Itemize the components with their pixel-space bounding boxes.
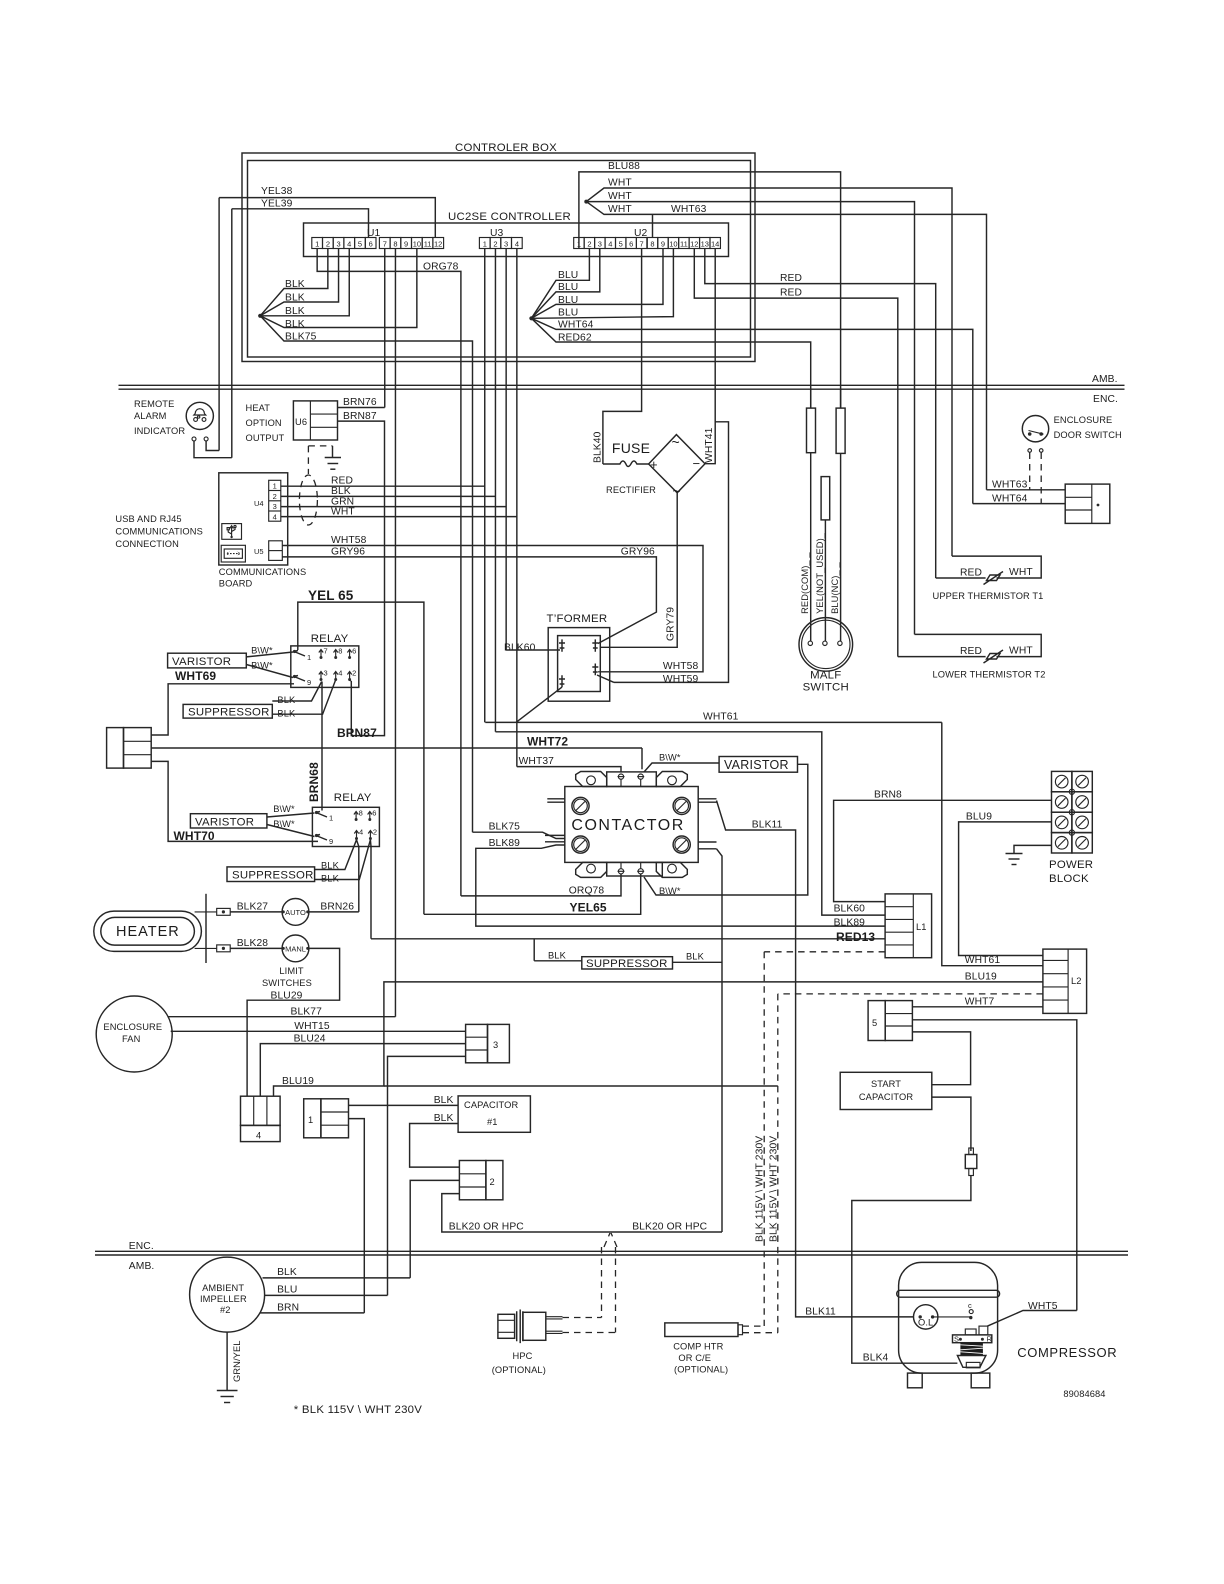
wire BLK U1 pin 2	[260, 249, 328, 316]
malf switch pin 1	[808, 641, 812, 645]
contactor mounting ear bottom-right	[656, 862, 687, 877]
svg-text:R: R	[987, 1335, 993, 1344]
door switch pin left	[1028, 432, 1032, 436]
thermistor T1 symbol	[936, 577, 986, 579]
svg-text:8: 8	[338, 647, 342, 656]
wire BLK U1 pin 4	[260, 249, 349, 316]
wire BLK from U4 pin2 to U3 pin2 column	[281, 495, 496, 497]
wire WHT15 fan to connector 3	[171, 1030, 466, 1032]
svg-text:U4: U4	[254, 499, 264, 508]
svg-text:IMPELLER: IMPELLER	[200, 1294, 247, 1304]
svg-text:BLK60: BLK60	[504, 643, 536, 654]
wire WHT63 to connector	[987, 489, 1066, 491]
wire BLK U1 pin 10	[260, 249, 417, 328]
svg-text:BLU88: BLU88	[608, 161, 640, 172]
svg-text:BRN76: BRN76	[343, 397, 377, 408]
contactor screw bottom-right	[673, 836, 690, 853]
svg-text:3: 3	[493, 1040, 498, 1050]
connector 1 pin column	[321, 1099, 349, 1138]
svg-text:BLK: BLK	[548, 951, 567, 961]
svg-text:#2: #2	[220, 1305, 231, 1315]
compressor foot right	[971, 1373, 990, 1388]
svg-text:BLU: BLU	[558, 308, 578, 319]
node BLU fan junction	[529, 316, 533, 320]
svg-text:BLU19: BLU19	[282, 1076, 314, 1087]
wire RED(COM) above sleeve	[810, 389, 812, 408]
svg-text:~: ~	[672, 434, 680, 450]
wire RED13 branch to suppressor3	[533, 939, 535, 961]
svg-text:1: 1	[315, 240, 319, 249]
wire varistor2 to relay2 pin1	[267, 813, 315, 817]
svg-text:2: 2	[490, 1177, 495, 1187]
wire GRY96 from U5 to transformer	[282, 557, 656, 644]
svg-text:WHT70: WHT70	[174, 829, 215, 843]
communications board outline	[219, 473, 288, 565]
wire BRN87 from U6 to relay 1 pin 2	[338, 421, 385, 735]
svg-text:6: 6	[369, 240, 373, 249]
start capacitor box	[840, 1072, 932, 1109]
svg-text:RED(COM)_ _: RED(COM)_ _	[800, 552, 810, 614]
svg-text:3: 3	[504, 240, 508, 249]
power block terminal grid	[1052, 771, 1072, 791]
contactor coil terminal top-left	[618, 774, 623, 779]
wire BLK U1 pin 3	[260, 249, 338, 316]
svg-text:WHT: WHT	[331, 507, 355, 518]
contactor mounting ear top-right	[656, 772, 687, 787]
svg-text:5: 5	[619, 240, 623, 249]
svg-text:GRN/YEL: GRN/YEL	[232, 1340, 242, 1382]
compressor relay bar	[953, 1335, 992, 1343]
svg-text:WHT37: WHT37	[519, 756, 555, 767]
svg-text:WHT: WHT	[1009, 567, 1033, 578]
svg-text:ENCLOSURE: ENCLOSURE	[103, 1022, 162, 1032]
svg-text:c: c	[968, 1301, 972, 1310]
wire BRN76 U1 pin7 to U6	[384, 249, 386, 408]
svg-text:BLK: BLK	[285, 319, 305, 330]
wire BLU U2 pin10	[531, 249, 673, 319]
wire BLU24 connector3 to connector4	[260, 1044, 465, 1097]
wire BLK4 to compressor start winding	[852, 1176, 971, 1364]
svg-text:BLU29: BLU29	[271, 991, 303, 1002]
wire BLK60 U3 pin2 to L1	[495, 732, 885, 915]
wire suppressor1 to relay1 pin 4	[272, 681, 335, 715]
contactor line contact stubs right upper	[698, 798, 716, 800]
wire WHT37 into contactor coil	[517, 767, 621, 772]
svg-text:BLU: BLU	[558, 270, 578, 281]
svg-text:6: 6	[372, 809, 376, 818]
wire RED from U4 pin1 to U3 pin1 column	[281, 485, 485, 487]
svg-text:BLK89: BLK89	[489, 838, 521, 849]
suppressor 1 box	[183, 704, 272, 718]
svg-text:(OPTIONAL): (OPTIONAL)	[492, 1365, 546, 1375]
svg-text:FAN: FAN	[122, 1034, 140, 1044]
wire GRY79 rectifier to transformer	[600, 493, 677, 648]
svg-text:COMMUNICATIONS: COMMUNICATIONS	[115, 527, 202, 537]
compressor foot left	[908, 1373, 923, 1388]
wire BLK89 contactor to L1	[476, 845, 885, 926]
door switch connector dot	[1097, 504, 1100, 507]
transformer pin left bottom	[559, 675, 565, 687]
wire WHT64 to door switch connector	[531, 318, 972, 503]
transformer outer box	[548, 628, 610, 702]
wire connector3 to impeller BLU	[388, 1056, 466, 1295]
svg-text:VARISTOR: VARISTOR	[724, 758, 789, 772]
svg-text:4: 4	[515, 240, 519, 249]
svg-text:BLU19: BLU19	[965, 972, 997, 983]
ground symbol at U6	[325, 457, 341, 459]
wire varistor to coil bottom	[644, 764, 808, 895]
thermistor T2 symbol	[898, 656, 986, 658]
svg-text:RELAY: RELAY	[311, 633, 349, 645]
transformer inner box	[558, 636, 601, 692]
wire WHT lower / WHT63	[586, 202, 986, 490]
wire WHT41 from U2 pin14 to rectifier	[705, 249, 715, 464]
wire U1 pin8 long vertical to BLK77	[394, 249, 396, 1017]
wire RED13 relay2 pin2 down	[369, 840, 372, 939]
relay 1 pin 8	[334, 650, 338, 659]
svg-text:WHT63: WHT63	[992, 480, 1028, 491]
wire connector5 to WHT5	[912, 1020, 1076, 1311]
svg-text:12: 12	[690, 240, 698, 249]
relay bar dot right	[981, 1338, 984, 1341]
transformer pin left top	[559, 639, 565, 651]
wire YEL39 from U1 pin 6	[232, 209, 369, 238]
wire varistor1 to relay1 pin1	[246, 652, 293, 657]
comp heater box	[665, 1323, 738, 1337]
svg-text:ORQ78: ORQ78	[569, 886, 605, 897]
RJ45 icon box	[221, 545, 245, 562]
connector 5 body	[868, 1001, 885, 1041]
remote alarm terminal left	[192, 437, 196, 441]
wire WHT70 connector to relay 2	[151, 761, 318, 841]
svg-text:CAPACITOR: CAPACITOR	[464, 1100, 518, 1110]
svg-text:ORG78: ORG78	[423, 262, 459, 273]
wire WHT from U4 pin4 to U3 pin4 column	[281, 516, 517, 518]
svg-text:BLK75: BLK75	[489, 822, 521, 833]
suppressor 3 box	[582, 957, 673, 969]
svg-text:1: 1	[483, 240, 487, 249]
dashed wire door switch to WHT64	[1040, 453, 1042, 504]
wire BLK into suppressor3 left	[534, 960, 582, 962]
wire suppressor1 to relay1 pin 3	[272, 682, 321, 702]
svg-text:L2: L2	[1071, 976, 1082, 986]
relay 2 body	[312, 807, 379, 846]
ground symbol impeller	[217, 1390, 238, 1392]
dashed HPC pin1 lead	[563, 1317, 602, 1319]
svg-text:YEL39: YEL39	[261, 199, 293, 210]
svg-text:ENC.: ENC.	[129, 1241, 154, 1252]
wire BLU88 from U2 pin1 to sleeve	[579, 172, 841, 408]
wire BLU U2 pin3	[531, 249, 599, 319]
malf switch inner circle	[802, 620, 850, 668]
controller box inner frame	[248, 161, 751, 358]
compressor start winding coil	[960, 1343, 983, 1356]
wire WHT59 branch to transformer	[614, 422, 729, 683]
wire BLU9 power block to L2	[959, 822, 1052, 956]
svg-text:WHT58: WHT58	[663, 661, 699, 672]
svg-text:WHT64: WHT64	[992, 494, 1028, 505]
O.L terminal right	[931, 1315, 934, 1318]
wire remote alarm left terminal	[194, 441, 232, 458]
svg-text:9: 9	[661, 240, 665, 249]
wire WHT64 to connector	[973, 503, 1065, 505]
wire BLU U2 pin9	[531, 249, 663, 319]
contactor contact stubs right lower	[698, 841, 716, 843]
svg-text:USB AND RJ45: USB AND RJ45	[115, 514, 181, 524]
svg-text:5: 5	[872, 1018, 877, 1028]
ambient impeller circle	[190, 1257, 265, 1332]
relay bar dot left	[959, 1338, 962, 1341]
svg-text:BLK: BLK	[434, 1095, 454, 1106]
HPC pressure switch body	[498, 1314, 515, 1338]
wire BRN26 relay2 pin4 down	[357, 840, 359, 912]
wire thermistor T1 WHT side	[952, 556, 1041, 578]
svg-text:COMPRESSOR: COMPRESSOR	[1017, 1345, 1117, 1360]
wire suppressor2 to relay2 pin 4	[315, 840, 357, 870]
svg-text:11: 11	[680, 240, 688, 249]
svg-text:WHT7: WHT7	[965, 997, 995, 1008]
transformer pin right top	[592, 639, 598, 651]
heater element bar	[205, 894, 207, 963]
svg-text:WHT5: WHT5	[1028, 1301, 1058, 1312]
svg-text:BOARD: BOARD	[219, 579, 253, 589]
wire remote alarm right terminal	[206, 441, 219, 451]
svg-text:VARISTOR: VARISTOR	[172, 656, 231, 668]
compressor terminal c post	[969, 1310, 973, 1314]
connector U2 pin boxes 1-14	[574, 238, 584, 249]
svg-text:REMOTE: REMOTE	[134, 399, 174, 409]
svg-text:MANL: MANL	[285, 945, 306, 954]
contactor coil terminal block bottom	[607, 862, 663, 876]
svg-text:OR C/E: OR C/E	[678, 1353, 711, 1363]
svg-text:BLU(NC)_ _: BLU(NC)_ _	[830, 562, 840, 614]
svg-text:2: 2	[373, 828, 377, 837]
svg-text:ENCLOSURE: ENCLOSURE	[1054, 415, 1113, 425]
AMB/ENC boundary line upper	[119, 384, 1125, 386]
wire varistor1 to relay1 pin9	[246, 665, 293, 678]
connector 3 body	[488, 1024, 510, 1062]
svg-text:BLK: BLK	[331, 486, 351, 497]
svg-text:BLU24: BLU24	[294, 1034, 326, 1045]
svg-text:B\W*: B\W*	[659, 886, 681, 896]
svg-text:WHT69: WHT69	[175, 669, 216, 683]
dashed wire BLK 115V / WHT 230V left	[763, 952, 765, 1326]
wire U3 pin3 vertical BLK60 to transformer	[505, 249, 507, 651]
wire BRN8 power block to L1	[834, 800, 1052, 901]
svg-text:BLK: BLK	[434, 1113, 454, 1124]
svg-text:BLK27: BLK27	[237, 902, 269, 913]
svg-text:−: −	[693, 456, 701, 471]
svg-text:SUPPRESSOR: SUPPRESSOR	[586, 958, 668, 970]
wire start capacitor to thermal cutout	[932, 1097, 971, 1151]
svg-text:AMB.: AMB.	[129, 1261, 155, 1272]
svg-text:BLK77: BLK77	[291, 1007, 323, 1018]
svg-text:2: 2	[273, 492, 277, 501]
svg-text:BLU: BLU	[558, 295, 578, 306]
fuse element symbol	[603, 461, 649, 467]
wire thermistor T2 WHT side	[915, 634, 1042, 656]
svg-text:WHT58: WHT58	[331, 535, 367, 546]
svg-text:BLK11: BLK11	[805, 1307, 836, 1318]
svg-text:BLK20 OR HPC: BLK20 OR HPC	[632, 1222, 707, 1233]
door switch terminal left	[1028, 449, 1032, 453]
svg-text:+: +	[650, 457, 658, 472]
svg-text:AUTO: AUTO	[285, 908, 306, 917]
wire GRN/YEL impeller ground	[226, 1332, 228, 1390]
relay 2 pin 4	[354, 831, 358, 840]
HPC pin 1	[546, 1316, 563, 1318]
svg-text:(OPTIONAL): (OPTIONAL)	[674, 1365, 728, 1375]
malf switch pin 2	[823, 641, 827, 645]
svg-text:11: 11	[424, 240, 432, 249]
svg-text:WHT: WHT	[1009, 646, 1033, 657]
comp heater tab	[738, 1325, 743, 1335]
svg-text:BLK: BLK	[277, 695, 296, 705]
wire power block ground	[1014, 845, 1052, 853]
svg-text:8: 8	[650, 240, 654, 249]
wire BLK75 into contactor	[473, 832, 565, 838]
malf switch pin 3	[838, 641, 842, 645]
svg-text:UPPER THERMISTOR T1: UPPER THERMISTOR T1	[933, 591, 1044, 601]
wire BLU(NC) to malf switch	[840, 453, 842, 641]
wire WHT59 diagonal to transformer	[597, 675, 614, 682]
wire ORG78 into contactor coil bottom	[461, 874, 621, 896]
contactor screw top-right	[673, 797, 690, 814]
svg-text:6: 6	[629, 240, 633, 249]
svg-text:9: 9	[329, 837, 333, 846]
svg-text:VARISTOR: VARISTOR	[195, 817, 254, 829]
connector U1 pin boxes 1-12	[312, 238, 323, 249]
HPC pin 2	[546, 1330, 563, 1332]
svg-text:LOWER THERMISTOR T2: LOWER THERMISTOR T2	[933, 670, 1046, 680]
svg-text:14: 14	[711, 240, 719, 249]
enclosure fan circle	[96, 996, 172, 1072]
svg-text:WHT61: WHT61	[965, 955, 1001, 966]
svg-text:RED: RED	[780, 288, 802, 299]
contactor coil terminal bottom-left	[618, 869, 623, 874]
svg-text:BLK: BLK	[686, 952, 705, 962]
ground stem at U6	[332, 446, 334, 457]
svg-text:HPC: HPC	[513, 1351, 533, 1361]
wire impeller BRN	[260, 1312, 365, 1314]
svg-text:O.L: O.L	[918, 1318, 933, 1328]
rectifier bridge diamond	[649, 435, 705, 493]
svg-text:9: 9	[404, 240, 408, 249]
ground symbol power block	[1006, 853, 1023, 855]
wire YEL38 vertical to remote alarm	[218, 198, 220, 451]
wire WHT63 tap to U2 pin 8	[652, 214, 654, 237]
svg-text:WHT61: WHT61	[703, 712, 739, 723]
USB icon box	[222, 524, 242, 540]
svg-text:7: 7	[640, 240, 644, 249]
svg-text:START: START	[871, 1079, 901, 1089]
connector U3 pin boxes 1-4	[479, 238, 490, 249]
svg-text:CONTACTOR: CONTACTOR	[571, 817, 684, 834]
svg-text:#1: #1	[487, 1117, 498, 1127]
svg-text:GRY96: GRY96	[621, 547, 655, 558]
svg-text:SWITCH: SWITCH	[803, 682, 849, 694]
connector 2 pin column	[459, 1161, 486, 1200]
svg-text:RED: RED	[780, 273, 802, 284]
svg-text:HEAT: HEAT	[246, 403, 271, 413]
svg-text:BLK75: BLK75	[285, 332, 317, 343]
wire YEL38 from U1 pin 12	[219, 198, 435, 238]
svg-text:RED62: RED62	[558, 333, 592, 344]
svg-text:BLU9: BLU9	[966, 812, 992, 823]
compressor body	[899, 1262, 998, 1373]
svg-text:U6: U6	[295, 417, 307, 427]
wire BRN68 relay1 pin3 to relay2 pin1	[321, 682, 323, 811]
connector L2	[1043, 949, 1087, 1013]
dashed HPC tap Y	[604, 1233, 610, 1247]
svg-text:BLK: BLK	[285, 279, 305, 290]
svg-text:10: 10	[413, 240, 421, 249]
svg-text:BRN26: BRN26	[320, 902, 354, 913]
UC2SE controller outline	[304, 223, 729, 257]
svg-text:UC2SE CONTROLLER: UC2SE CONTROLLER	[448, 211, 571, 223]
node compressor common	[969, 1316, 972, 1319]
compressor funnel base	[966, 1362, 980, 1367]
svg-text:YEL 65: YEL 65	[308, 588, 354, 603]
left connector pin column	[124, 728, 152, 769]
contactor mounting ear bottom-left	[576, 862, 607, 877]
svg-text:8: 8	[359, 809, 363, 818]
dashed wire BLK 115V / WHT 230V right	[777, 994, 779, 1333]
svg-text:10: 10	[669, 240, 677, 249]
wire U3 pin1 vertical to WHT61	[484, 249, 486, 723]
svg-text:2: 2	[326, 240, 330, 249]
svg-text:DOOR SWITCH: DOOR SWITCH	[1054, 430, 1122, 440]
dashed cable shield ellipse	[299, 475, 317, 525]
varistor contactor box	[719, 757, 797, 773]
heater terminal upper	[217, 908, 231, 915]
varistor 1 box	[168, 653, 247, 668]
wire GRN from U4 pin3 to U3 pin3 column	[281, 506, 506, 508]
thermal cutout component	[969, 1148, 974, 1155]
svg-text:SUPPRESSOR: SUPPRESSOR	[232, 870, 314, 882]
svg-text:SUPPRESSOR: SUPPRESSOR	[188, 707, 270, 719]
varistor 2 box	[190, 814, 267, 828]
svg-text:BLK89: BLK89	[834, 918, 866, 929]
wire B\W* coil to varistor	[644, 763, 719, 772]
svg-text:CAPACITOR: CAPACITOR	[859, 1092, 913, 1102]
svg-text:BLK: BLK	[285, 306, 305, 317]
capacitor 1 box	[458, 1096, 530, 1132]
relay 2 pin 8	[354, 812, 358, 821]
relay 1 pin 3	[319, 672, 323, 681]
svg-text:CONTROLER BOX: CONTROLER BOX	[455, 142, 557, 154]
svg-text:YEL65: YEL65	[570, 901, 607, 915]
wire connector1 to impeller BRN	[349, 1119, 365, 1313]
svg-text:13: 13	[701, 240, 709, 249]
heater outer shape	[94, 911, 202, 951]
svg-text:BLK: BLK	[277, 1267, 297, 1278]
O.L terminal left	[919, 1315, 922, 1318]
wire connector5 to start capacitor	[912, 1032, 970, 1085]
dashed comp heater to left riser	[743, 1325, 765, 1327]
relay 1 pin 1	[294, 651, 305, 657]
svg-text:BRN: BRN	[277, 1303, 299, 1314]
wire connector2 to impeller BLK	[410, 1180, 459, 1278]
svg-text:4: 4	[338, 669, 342, 678]
svg-text:BRN8: BRN8	[874, 790, 902, 801]
wire BLU U2 pin2	[531, 249, 589, 319]
wire O.L to common terminal	[933, 1316, 971, 1318]
svg-text:MALF: MALF	[810, 670, 841, 682]
connector U5 outline	[269, 541, 283, 561]
svg-text:BRN87: BRN87	[337, 726, 377, 740]
wire U3 pin2 vertical to BLK60	[494, 249, 496, 732]
